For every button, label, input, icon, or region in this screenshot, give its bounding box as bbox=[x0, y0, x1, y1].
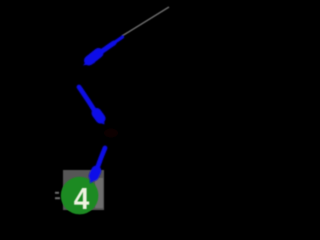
node thumbnail right strip (lighter) bbox=[95, 178, 103, 208]
node 4 highlight (green circle) bbox=[61, 177, 99, 215]
annotation arrow 2 (points down-right) bbox=[79, 87, 105, 125]
node thumbnail (gray square behind node 4) bbox=[63, 170, 104, 210]
tick dashes left of node 4 bbox=[55, 192, 60, 199]
tree edge (faint gray diagonal line, top) bbox=[122, 7, 169, 36]
faint node (dark red blob) bbox=[104, 129, 118, 138]
annotation arrow 1 (points down-left) bbox=[83, 37, 123, 66]
svg-text:4: 4 bbox=[74, 182, 90, 217]
annotation arrow 3 (points down-left) bbox=[90, 148, 105, 184]
